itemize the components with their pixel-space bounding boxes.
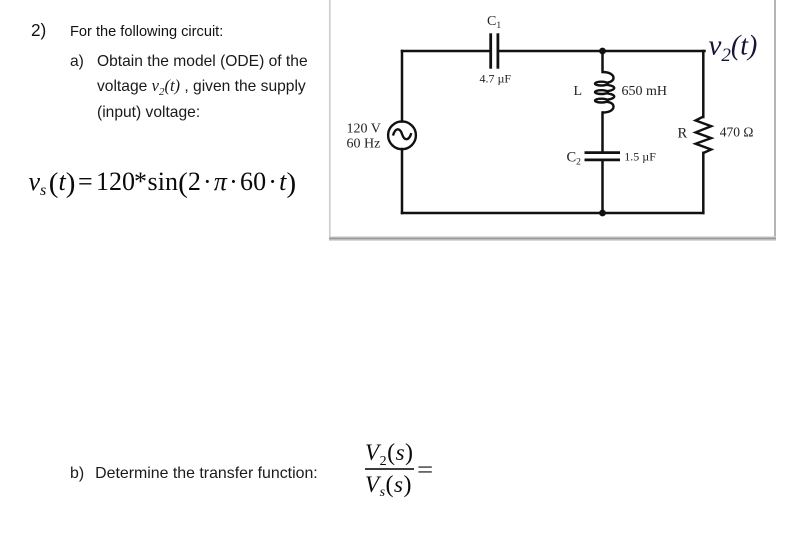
value 650 mH (622, 84, 668, 99)
wire left upper: top-left corner down to source (401, 51, 404, 122)
part a) text block (70, 50, 308, 125)
wire middle mid: inductor to C2 (601, 113, 604, 153)
svg-text:4.7 µF: 4.7 µF (480, 72, 512, 86)
heading: For the following circuit: (70, 24, 223, 40)
wire middle lower: C2 to bottom node (601, 161, 604, 214)
value 4.7 uF (480, 72, 512, 86)
circuit panel (329, 0, 777, 244)
svg-text:60 Hz: 60 Hz (347, 137, 381, 152)
equation vs(t) = 120*sin(2*pi*60*t) (0, 167, 330, 207)
wire top-right: C1 right plate to v2 node (499, 50, 705, 53)
transfer function fraction V2(s)/Vs(s) = (0, 0, 1, 1)
resistor R (696, 117, 712, 153)
capacitor C1 (491, 33, 498, 68)
svg-text:470 Ω: 470 Ω (720, 125, 754, 140)
label C2 (567, 150, 582, 168)
capacitor C2 (585, 153, 621, 160)
ac source V1 120V 60Hz (388, 121, 416, 149)
node A: top junction dot (599, 48, 606, 55)
wire right lower: resistor to bottom-right corner (702, 153, 705, 213)
svg-text:120 V: 120 V (347, 122, 381, 137)
svg-text:1.5 µF: 1.5 µF (624, 149, 656, 163)
wire bottom (402, 212, 703, 215)
label R (678, 126, 688, 142)
wire left lower: source to bottom-left corner (401, 149, 404, 213)
wire right upper: v2 node down to resistor (702, 51, 705, 117)
svg-text:L: L (574, 84, 583, 99)
svg-text:R: R (678, 126, 688, 142)
value 120 V (347, 122, 381, 137)
node B: bottom junction dot (599, 210, 606, 217)
wire top-left: source top to C1 left plate (402, 50, 490, 53)
value 1.5 uF (624, 149, 656, 163)
label C1 (487, 14, 501, 31)
value 60 Hz (347, 137, 381, 152)
svg-text:650 mH: 650 mH (622, 84, 668, 99)
label L (574, 84, 583, 99)
question number 2) (31, 20, 46, 41)
svg-text:v2(t): v2(t) (709, 30, 758, 67)
inductor L (595, 72, 614, 113)
value 470 ohm (720, 125, 754, 140)
net label v2(t) (709, 30, 758, 67)
wire middle upper: top node to inductor (601, 51, 604, 72)
part b) text (70, 465, 318, 483)
